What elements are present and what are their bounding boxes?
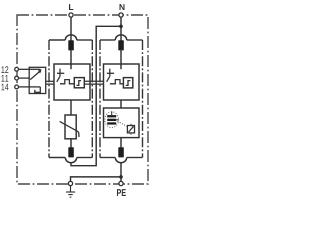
earth rail wire: [71, 177, 122, 182]
plug-in contact arc (right module, bottom): [115, 158, 126, 163]
left module outline (dashed sides, solid rails): [49, 40, 92, 158]
label PE: [117, 189, 126, 196]
wire terminal 11 to contact box: [18, 77, 29, 79]
ground symbol: [66, 186, 75, 197]
wire N to left-module bottom (branch via x=96): [71, 26, 121, 165]
upper box (left module: disconnector + monitoring): [54, 64, 90, 100]
wire upper box to spark-gap box (right): [120, 100, 122, 108]
label N: [120, 4, 125, 10]
spark gap electrodes: [107, 115, 116, 117]
wire N feed: [120, 17, 122, 41]
label 14: [1, 84, 8, 91]
mechanical link (double line, left module to right module): [84, 81, 104, 84]
wire varistor to bottom pin: [70, 139, 72, 148]
varistor (left module): [65, 115, 76, 139]
upper box (right module: disconnector + monitoring): [104, 64, 140, 100]
wire pin to upper box (right): [120, 50, 122, 70]
disconnector blade (left): [57, 69, 65, 82]
trigger step line (right): [110, 80, 124, 84]
terminal 14: [15, 85, 19, 89]
right module outline (dashed sides, solid rails): [100, 40, 143, 158]
plug-in contact arc (right module, top): [115, 35, 126, 40]
pin element bottom (left module, black): [68, 147, 74, 157]
wire bottom pin to PE junction: [120, 162, 122, 181]
junction N: [119, 25, 123, 29]
disconnector blade (right): [107, 69, 115, 82]
wire L feed: [70, 17, 72, 41]
plug-in contact arc (left module, bottom): [65, 158, 76, 163]
N-PE spark gap box: [104, 108, 140, 138]
pin element top (right module, black): [118, 40, 124, 50]
pin element bottom (right module, black): [118, 147, 124, 157]
terminal N: [119, 13, 123, 17]
wire box to varistor: [70, 100, 72, 115]
trigger step line (left): [60, 80, 74, 84]
terminal L: [69, 13, 73, 17]
changeover contact: [29, 69, 40, 92]
spark gap dotted enclosure: [105, 112, 119, 128]
terminal 11: [15, 76, 19, 80]
enclosure border (dash-dot): [17, 15, 148, 184]
monitoring box with step symbol (left): [74, 78, 84, 88]
label 11: [1, 75, 8, 82]
remote signalling contact box: [29, 67, 46, 93]
terminal PE: [119, 181, 123, 185]
earth terminal circle: [68, 181, 72, 185]
wire terminal 12 to contact box: [18, 68, 29, 70]
mechanical link (double line, contact box to left module): [46, 81, 54, 84]
terminal 12: [15, 67, 19, 71]
pin element top (left module, black): [68, 40, 74, 50]
wire terminal 14 to contact box: [18, 86, 29, 88]
monitoring box with step symbol (right): [123, 78, 132, 88]
trigger device box with actuating arrow: [127, 126, 134, 133]
junction PE: [119, 175, 123, 179]
wire pin to upper box (left): [70, 50, 72, 70]
dotted trigger line: [118, 121, 127, 126]
electrode stub: [111, 112, 113, 116]
label 12: [1, 66, 8, 73]
label L: [69, 4, 73, 10]
wire spark gap box to bottom pin (right): [120, 138, 122, 148]
plug-in contact arc (left module, top): [65, 35, 76, 40]
